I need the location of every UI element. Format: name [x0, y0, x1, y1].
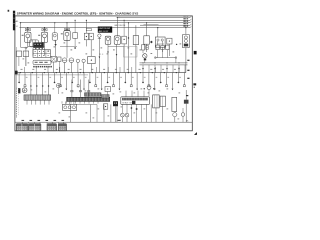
bus junction dots — [20, 72, 21, 73]
wire link below ECU — [77, 104, 97, 106]
wire code labels upper — [64, 42, 66, 45]
wire drop 16 — [107, 73, 109, 82]
fusible link FL2 — [181, 113, 185, 117]
svg-text:1J: 1J — [16, 26, 18, 28]
fuse link bracket — [108, 46, 124, 48]
ECU label row — [85, 93, 102, 96]
throttle sensor — [51, 56, 56, 62]
fuse F5 — [105, 36, 111, 44]
wire drop 8 — [59, 73, 61, 85]
sensor bracket — [155, 57, 176, 59]
wire drop 14 — [95, 73, 97, 85]
wire drop 24 — [154, 73, 156, 89]
top bus junction dots — [20, 22, 21, 23]
wire bus C — [20, 22, 191, 24]
right rail drops — [142, 65, 144, 73]
page corner mark — [8, 10, 10, 12]
solenoid coil L1 — [121, 113, 125, 117]
wire labels above bus — [21, 68, 23, 71]
svg-text:2 1 3: 2 1 3 — [99, 54, 103, 56]
solenoid coil L2 — [125, 113, 129, 117]
battery — [184, 100, 189, 104]
ground label box — [18, 88, 20, 93]
wire drop 21 — [136, 73, 138, 89]
wire bus main — [15, 72, 186, 74]
wire 151 — [150, 104, 152, 122]
wire code text row — [33, 66, 35, 68]
wire drop 12 — [83, 73, 85, 89]
cold start injector — [141, 45, 144, 50]
ground circle B2 — [56, 83, 60, 87]
DLC connector — [63, 104, 77, 110]
resistor RS1 — [73, 33, 78, 39]
wire drop 23 — [148, 73, 150, 85]
wire bus E — [20, 27, 191, 29]
relay box RL2 — [23, 51, 29, 57]
ignition switch S1 — [33, 42, 44, 47]
relay R3 — [144, 36, 150, 44]
junction block J2 — [29, 124, 41, 131]
wire stub col 20 — [20, 23, 22, 48]
wire col 116 — [116, 44, 118, 72]
page frame — [15, 16, 192, 131]
svg-text:A-1: A-1 — [16, 20, 19, 23]
margin note dash — [193, 83, 196, 85]
wire col 26 — [25, 49, 27, 66]
alternator — [172, 97, 177, 111]
wire drop 18 — [118, 73, 120, 89]
wire drop 27 — [172, 73, 174, 89]
oil pressure switch — [147, 86, 151, 90]
wire drop 9 — [65, 73, 67, 89]
relay R2 — [133, 36, 138, 45]
wire color strip — [16, 88, 18, 119]
ignition switch label box — [98, 27, 112, 33]
wire code labels lower — [23, 91, 25, 94]
wire drop 4 — [36, 73, 38, 95]
relay block grid — [33, 50, 50, 58]
solenoid valve VSV2 — [69, 58, 74, 63]
wire bus A — [120, 17, 190, 19]
junction block J3 — [47, 124, 57, 131]
wire col F3 down — [66, 46, 68, 58]
fuse F6 — [114, 36, 120, 45]
page corner triangle — [194, 132, 197, 135]
starter relay top stubs — [125, 91, 127, 97]
injector resistor — [58, 57, 61, 61]
wire labels below bus — [26, 76, 28, 79]
wire drop 3 — [30, 73, 32, 95]
wire drop 26 — [166, 73, 168, 85]
fuse label boxes — [25, 28, 30, 30]
bottom rail drops — [22, 122, 24, 124]
wire stubs above bus — [23, 67, 25, 73]
ECU connector bar — [67, 97, 110, 101]
water temp sensor — [143, 54, 147, 58]
fuse F4 — [52, 33, 57, 40]
relay RB2 — [105, 87, 111, 92]
wire drop 19 — [124, 73, 126, 82]
starter relay box — [121, 97, 150, 105]
left margin tab — [13, 11, 15, 31]
circuit opening relay — [33, 60, 51, 64]
wire bottom rail — [15, 121, 192, 123]
resistor mark — [136, 108, 138, 110]
ECU pin stubs below — [61, 101, 63, 103]
wire drop 17 — [113, 73, 115, 85]
starter motor — [153, 95, 160, 108]
relay box RL1 — [16, 51, 22, 57]
wire 141 — [141, 104, 143, 122]
sub-circuit enclosure — [124, 47, 138, 58]
ECU label row 2 — [102, 95, 110, 98]
wires to bottom rail — [69, 104, 71, 122]
fusible link F2 — [44, 28, 46, 33]
knock sensor row — [156, 45, 160, 50]
wire drop 5 — [42, 73, 44, 95]
wire col 33 down — [32, 48, 34, 56]
distributor connector P — [155, 37, 165, 47]
wire drop 22 — [142, 73, 144, 82]
wire drop 13 — [89, 73, 91, 82]
check connector CC — [167, 38, 172, 44]
wire col F2 down — [44, 50, 46, 56]
title dash segment — [144, 24, 159, 27]
relay R1 — [30, 40, 39, 47]
sensor SN1 — [76, 59, 79, 62]
park neutral connector — [113, 101, 118, 106]
resistor block RB — [103, 104, 107, 109]
left margin wire — [16, 47, 18, 88]
ignition coil T1 — [182, 34, 189, 47]
ground circle B — [22, 88, 27, 93]
wire bus lower — [15, 74, 88, 76]
fuse F3 — [66, 23, 68, 31]
fuse label dashes — [22, 34, 24, 37]
svg-text:AM1 IG1 ST: AM1 IG1 ST — [99, 30, 110, 33]
wire drop 11 — [77, 73, 79, 85]
diode D1 — [54, 43, 56, 45]
wire drop 7 — [54, 73, 56, 82]
wire labels right edge — [187, 60, 189, 61]
wire drop 15 — [101, 73, 103, 89]
capacitor C1 — [98, 34, 101, 37]
right rail upper — [140, 62, 188, 64]
solenoid valve VSV1 — [62, 58, 67, 63]
junction block J1 — [16, 124, 28, 131]
fuse F7 — [122, 36, 127, 44]
cowl bar pin wires — [26, 100, 28, 104]
wire F1-F2 link — [28, 45, 45, 47]
junction block J4 — [58, 124, 66, 131]
bus tag left — [15, 71, 18, 75]
sensor SN2 — [82, 59, 85, 62]
diode D2 — [130, 107, 132, 109]
right rail lower — [140, 64, 188, 66]
vacuum switch VS — [88, 57, 96, 64]
wire drop 10 — [71, 73, 73, 82]
wire drop 2 — [24, 73, 26, 85]
wire drop 1 — [18, 73, 20, 82]
bottom mid label — [118, 120, 121, 121]
cowl side connector bar — [24, 95, 51, 100]
connector pair CN1 — [84, 33, 88, 40]
wire drop 20 — [130, 73, 132, 85]
wire drop 29 — [183, 73, 185, 85]
svg-text:SPRINTER WIRING DIAGRAM · ENGI: SPRINTER WIRING DIAGRAM · ENGINE CONTROL… — [17, 11, 138, 15]
wire bus D — [140, 24, 190, 26]
wire drop 25 — [160, 73, 162, 82]
wire drop 6 — [48, 73, 50, 95]
wire bus B — [100, 19, 190, 21]
junction dot mid — [128, 37, 129, 38]
wire drop 28 — [177, 73, 179, 82]
ECU input wires — [71, 80, 73, 98]
section tab EG — [194, 51, 197, 55]
bottom rail tick labels — [22, 120, 25, 121]
fusible link F1 — [27, 28, 29, 33]
